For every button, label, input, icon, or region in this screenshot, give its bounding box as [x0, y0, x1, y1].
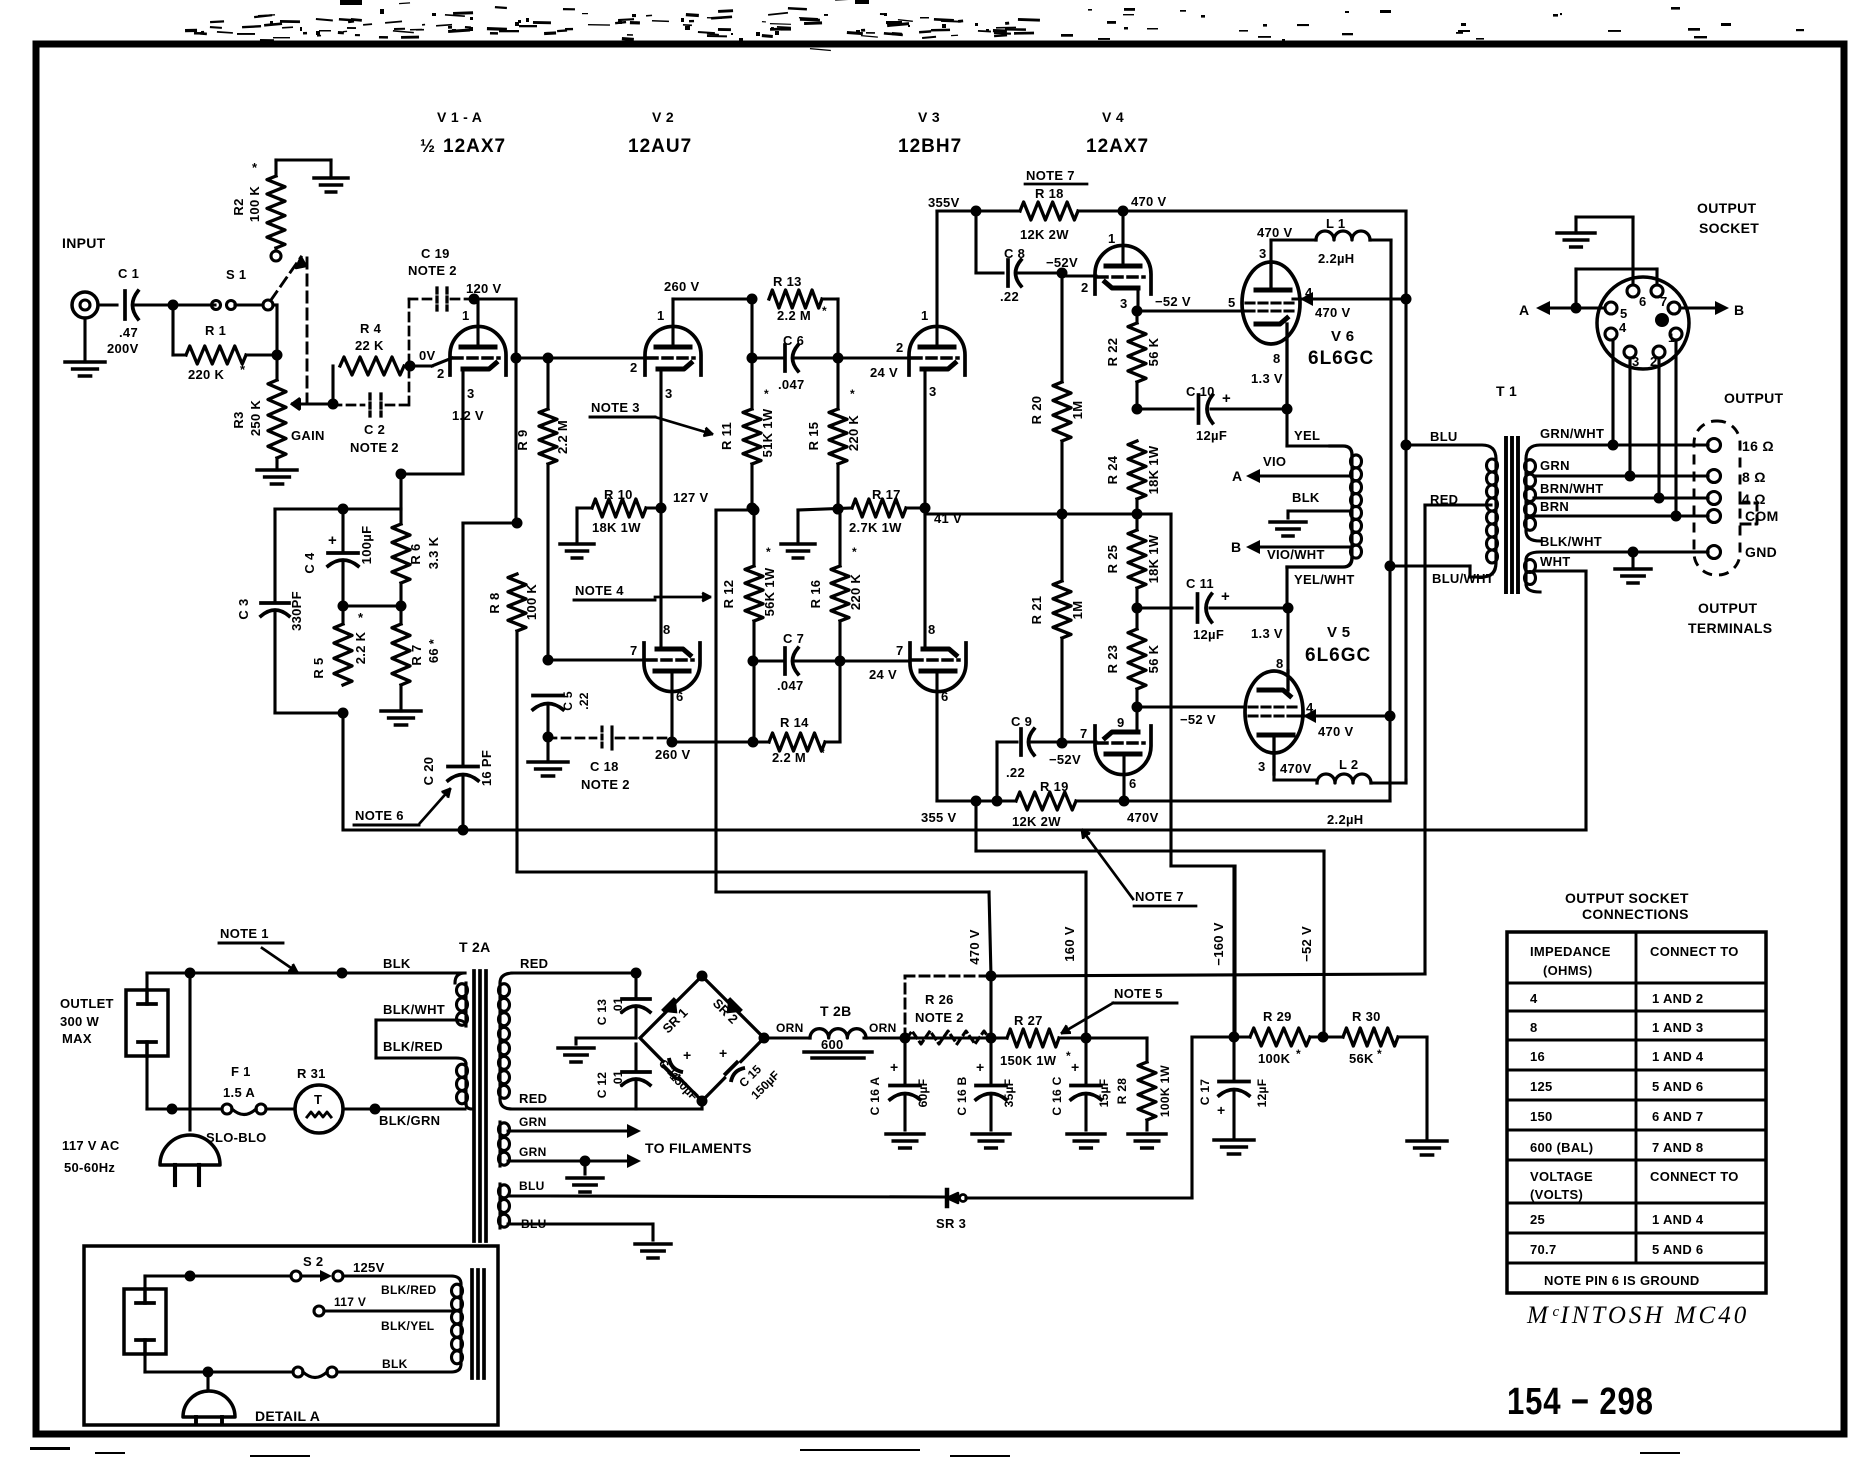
resistor R2 — [271, 251, 281, 261]
diode SR1 — [661, 997, 684, 1020]
svg-text:*: * — [764, 387, 769, 401]
rail B+ x716 — [714, 510, 717, 892]
svg-text:4: 4 — [1530, 991, 1538, 1006]
tap B VIO/WHT — [1258, 546, 1352, 549]
node C11 left — [1132, 603, 1143, 614]
resistor R19 12K 2W — [937, 799, 1016, 802]
svg-text:470 V: 470 V — [1257, 225, 1293, 240]
svg-text:R3: R3 — [231, 411, 246, 428]
svg-text:−52 V: −52 V — [1180, 712, 1216, 727]
svg-text:R 29: R 29 — [1263, 1009, 1292, 1024]
svg-text:*: * — [850, 387, 855, 401]
filament ground — [580, 1156, 591, 1167]
node C7 left — [835, 656, 846, 667]
fuse F1 — [222, 1104, 232, 1114]
ground below input jack — [83, 318, 86, 362]
V1 cathode wire — [461, 369, 464, 474]
node R5 top — [338, 601, 349, 612]
wire C6 to V3 grid — [838, 356, 908, 359]
svg-text:9: 9 — [1117, 715, 1125, 730]
svg-text:220 K: 220 K — [188, 367, 225, 382]
node BLU — [1401, 440, 1412, 451]
svg-text:R 6: R 6 — [408, 543, 423, 564]
svg-text:1: 1 — [462, 308, 470, 323]
svg-text:VIO/WHT: VIO/WHT — [1267, 547, 1325, 562]
svg-text:*: * — [358, 610, 364, 625]
node R27 right — [1081, 1033, 1092, 1044]
svg-text:1.3 V: 1.3 V — [1251, 626, 1283, 641]
svg-text:½: ½ — [420, 136, 435, 156]
node RED C13 — [631, 968, 642, 979]
tube V3 12BH7 upper half — [909, 326, 965, 375]
T2A filament winding BLU — [498, 1184, 501, 1228]
bus 470V to right — [1123, 209, 1406, 212]
terminal GND — [1708, 546, 1721, 559]
svg-text:25: 25 — [1530, 1212, 1545, 1227]
note 7 arrow lower — [1082, 830, 1133, 899]
svg-text:6 AND 7: 6 AND 7 — [1652, 1109, 1703, 1124]
svg-text:2.7K 1W: 2.7K 1W — [849, 520, 902, 535]
svg-text:BLK/RED: BLK/RED — [383, 1039, 443, 1054]
wire R31 right — [343, 1107, 465, 1110]
diode SR2 — [720, 997, 743, 1020]
svg-text:TO FILAMENTS: TO FILAMENTS — [645, 1140, 752, 1156]
svg-text:OUTLET: OUTLET — [60, 996, 114, 1011]
svg-text:*: * — [822, 304, 827, 318]
svg-text:18K 1W: 18K 1W — [1146, 445, 1161, 494]
svg-text:12K 2W: 12K 2W — [1012, 814, 1061, 829]
tube V4 lower half — [1095, 726, 1151, 775]
svg-text:C 4: C 4 — [302, 552, 317, 574]
node outlet top — [185, 968, 196, 979]
svg-text:*: * — [240, 362, 246, 377]
svg-text:600 (BAL): 600 (BAL) — [1530, 1140, 1593, 1155]
svg-text:NOTE 7: NOTE 7 — [1135, 889, 1184, 904]
svg-text:L 1: L 1 — [1326, 216, 1345, 231]
svg-text:0V: 0V — [419, 348, 436, 363]
svg-text:56K 1W: 56K 1W — [762, 567, 777, 616]
socket pin 6 — [1631, 217, 1634, 285]
wire to V2b grid — [548, 658, 645, 661]
resistor R22 56K — [1135, 311, 1138, 323]
resistor R28 100K 1W — [1086, 1036, 1147, 1039]
node R19 left — [992, 796, 1003, 807]
svg-text:NOTE 7: NOTE 7 — [1026, 168, 1075, 183]
outlet box — [126, 990, 168, 1056]
svg-text:SOCKET: SOCKET — [1699, 220, 1759, 236]
detail A winding — [451, 1276, 461, 1284]
svg-text:7: 7 — [630, 643, 638, 658]
wire 120V to R8 top — [474, 297, 516, 300]
355V drop to -bus — [974, 801, 977, 851]
wire B arrow — [1680, 307, 1718, 310]
svg-text:2.2 M: 2.2 M — [772, 750, 806, 765]
wire outlet bottom — [145, 1056, 148, 1109]
T2A filament winding GRN — [498, 1122, 501, 1166]
wire V1 plate to V2 grid direct coupling — [516, 356, 648, 359]
svg-text:+: + — [890, 1059, 898, 1075]
svg-text:1: 1 — [657, 308, 665, 323]
svg-text:R 9: R 9 — [515, 429, 530, 450]
node C12 C13 mid ground — [576, 1036, 636, 1039]
svg-text:150: 150 — [1530, 1109, 1553, 1124]
svg-text:260 V: 260 V — [655, 747, 691, 762]
svg-text:SR 3: SR 3 — [936, 1216, 966, 1231]
node 355V — [971, 206, 982, 217]
resistor R8 — [508, 574, 526, 631]
bus y872 — [517, 870, 1086, 873]
node C5 bottom — [543, 732, 554, 743]
bridge rectifier diamond — [640, 976, 764, 1101]
svg-text:C 6: C 6 — [783, 333, 804, 348]
node A line — [1571, 303, 1582, 314]
svg-text:R 16: R 16 — [808, 580, 823, 609]
svg-text:NOTE PIN 6 IS GROUND: NOTE PIN 6 IS GROUND — [1544, 1273, 1700, 1288]
svg-text:R 1: R 1 — [205, 323, 226, 338]
svg-text:GRN: GRN — [1540, 458, 1570, 473]
V1 plate wire — [476, 299, 479, 347]
svg-text:VIO: VIO — [1263, 454, 1286, 469]
cathode winding T1 feedback — [1330, 446, 1352, 455]
node 120V — [469, 294, 480, 305]
svg-text:2: 2 — [1650, 354, 1658, 369]
V2 plate wire to 260V — [671, 299, 674, 347]
tube V2 lower half — [644, 643, 700, 692]
svg-text:NOTE 2: NOTE 2 — [915, 1010, 964, 1025]
wire to V4 grid — [1062, 274, 1096, 277]
wire R17 right to 41V — [906, 506, 925, 509]
svg-text:8: 8 — [1276, 656, 1284, 671]
svg-text:1 AND 2: 1 AND 2 — [1652, 991, 1703, 1006]
resistor R21 1M — [1060, 514, 1063, 581]
svg-text:.047: .047 — [777, 678, 804, 693]
svg-text:V 4: V 4 — [1102, 109, 1124, 125]
svg-text:117 V: 117 V — [334, 1295, 366, 1309]
capacitor C16B 35uF — [989, 1038, 992, 1084]
node R11 bottom — [747, 503, 758, 514]
svg-text:C 13: C 13 — [595, 999, 609, 1026]
svg-text:1: 1 — [1668, 331, 1675, 345]
node R24 R25 junction — [1132, 509, 1143, 520]
svg-text:*: * — [1377, 1047, 1382, 1061]
svg-text:2: 2 — [630, 360, 638, 375]
svg-text:12µF: 12µF — [1196, 428, 1227, 443]
socket pin drop wires — [1611, 340, 1614, 445]
inductor L2 2.2uH — [1317, 774, 1371, 783]
node -52V V4 cathode — [1132, 306, 1143, 317]
capacitor C8 .22 — [976, 271, 1003, 274]
socket pin 3 — [1624, 346, 1636, 358]
BLU wire to SR3 — [508, 1194, 548, 1197]
svg-text:R 28: R 28 — [1115, 1078, 1129, 1105]
svg-text:YEL/WHT: YEL/WHT — [1294, 572, 1355, 587]
tap WHT to bus — [1534, 569, 1560, 572]
svg-text:1: 1 — [1108, 231, 1116, 246]
node C6 right — [833, 353, 844, 364]
ground at R2 top — [329, 160, 332, 178]
svg-text:6L6GC: 6L6GC — [1308, 348, 1374, 369]
svg-text:+: + — [328, 532, 337, 549]
svg-text:R 14: R 14 — [780, 715, 809, 730]
ground at R10 left — [577, 506, 592, 509]
svg-text:60µF: 60µF — [916, 1079, 930, 1108]
svg-text:VOLTAGE: VOLTAGE — [1530, 1169, 1593, 1184]
svg-text:470 V: 470 V — [967, 929, 982, 965]
bus 470V lower right — [1124, 799, 1390, 802]
svg-text:3: 3 — [665, 386, 673, 401]
V3 cathode run — [923, 369, 926, 649]
svg-text:+: + — [1221, 588, 1230, 605]
svg-text:100K: 100K — [1258, 1051, 1291, 1066]
svg-text:470V: 470V — [1280, 761, 1312, 776]
svg-text:.22: .22 — [1000, 289, 1019, 304]
svg-text:R 12: R 12 — [721, 580, 736, 609]
svg-text:BLK/WHT: BLK/WHT — [383, 1002, 445, 1017]
svg-text:NOTE 2: NOTE 2 — [581, 777, 630, 792]
vertical rail x1062 R20 — [1060, 273, 1063, 382]
svg-text:MᶜINTOSH MC40: MᶜINTOSH MC40 — [1526, 1302, 1749, 1329]
svg-text:−52 V: −52 V — [1155, 294, 1191, 309]
T2A primary lower — [464, 1064, 467, 1104]
svg-text:NOTE 6: NOTE 6 — [355, 808, 404, 823]
resistor R13 — [769, 290, 822, 308]
capacitor C12 .01 — [622, 1070, 650, 1074]
capacitor C2 dashed NOTE 2 — [333, 404, 364, 407]
node C20 bottom — [458, 825, 469, 836]
svg-text:15µF: 15µF — [1097, 1079, 1111, 1108]
svg-text:1M: 1M — [1070, 401, 1085, 420]
V5 plate to L2 — [1272, 774, 1275, 780]
wire RED bottom — [512, 1107, 702, 1110]
svg-text:R 15: R 15 — [806, 422, 821, 451]
svg-text:−52V: −52V — [1049, 752, 1081, 767]
svg-text:L 2: L 2 — [1339, 757, 1358, 772]
bus y851 — [976, 849, 1324, 852]
svg-text:7 AND 8: 7 AND 8 — [1652, 1140, 1703, 1155]
svg-text:(VOLTS): (VOLTS) — [1530, 1187, 1583, 1202]
svg-text:C 10: C 10 — [1186, 384, 1215, 399]
svg-text:.22: .22 — [1006, 765, 1025, 780]
svg-text:18K 1W: 18K 1W — [592, 520, 641, 535]
svg-text:.01: .01 — [611, 997, 625, 1015]
svg-text:56 K: 56 K — [1146, 337, 1161, 366]
svg-text:*: * — [820, 746, 825, 760]
wire jack to C1 — [98, 303, 117, 306]
node wiper junction — [328, 399, 339, 410]
node C6 left — [747, 353, 758, 364]
svg-text:*: * — [1296, 1047, 1301, 1061]
svg-text:IMPEDANCE: IMPEDANCE — [1530, 944, 1611, 959]
svg-text:+: + — [976, 1059, 984, 1075]
svg-text:355V: 355V — [928, 195, 960, 210]
C9 left leg — [995, 742, 998, 801]
svg-text:C 19: C 19 — [421, 246, 450, 261]
T1 secondary lower winding — [1526, 552, 1708, 560]
svg-text:R 8: R 8 — [487, 592, 502, 613]
node R27 left — [986, 1033, 997, 1044]
svg-text:C 11: C 11 — [1186, 576, 1214, 591]
detail A box — [84, 1246, 498, 1425]
svg-text:S 2: S 2 — [303, 1254, 323, 1269]
V5 screen wire — [1296, 714, 1390, 717]
svg-text:R 4: R 4 — [360, 321, 382, 336]
tube V5 6L6GC — [1245, 671, 1303, 753]
svg-text:6: 6 — [1129, 776, 1137, 791]
svg-text:C 9: C 9 — [1011, 714, 1032, 729]
svg-text:C 16 C: C 16 C — [1050, 1076, 1064, 1115]
svg-text:YEL: YEL — [1294, 428, 1320, 443]
node C8 right — [1057, 268, 1068, 279]
svg-text:BRN/WHT: BRN/WHT — [1540, 481, 1603, 496]
capacitor C15 150uF — [720, 1057, 745, 1082]
svg-text:V 5: V 5 — [1327, 624, 1350, 641]
tap BRN COM — [1534, 514, 1708, 517]
svg-text:470V: 470V — [1127, 810, 1159, 825]
rail 470V x991 — [989, 976, 992, 1038]
svg-text:C 7: C 7 — [783, 631, 804, 646]
capacitor C16A 60uF — [903, 1038, 906, 1084]
svg-text:C 16 B: C 16 B — [955, 1076, 969, 1115]
svg-text:260 V: 260 V — [664, 279, 700, 294]
svg-text:470 V: 470 V — [1131, 194, 1167, 209]
svg-text:C 17: C 17 — [1198, 1079, 1212, 1106]
V2b plate wire — [670, 671, 673, 742]
wire cathode rail y509 — [275, 507, 401, 510]
capacitor C18 dashed NOTE 2 — [548, 737, 596, 740]
node BLK/GRN — [370, 1104, 381, 1115]
svg-text:RED: RED — [1430, 492, 1458, 507]
capacitor C13 .01 — [634, 973, 637, 997]
svg-text:127 V: 127 V — [673, 490, 709, 505]
svg-text:CONNECT TO: CONNECT TO — [1650, 1169, 1739, 1184]
svg-text:C 16 A: C 16 A — [868, 1077, 882, 1116]
bus y831 — [345, 828, 1586, 831]
capacitor C9 .22 — [1032, 740, 1096, 743]
socket pin 7 — [1651, 285, 1663, 297]
svg-text:BLU: BLU — [519, 1179, 545, 1193]
node detail A — [185, 1271, 196, 1282]
svg-text:+: + — [719, 1045, 727, 1061]
svg-text:2: 2 — [1081, 280, 1089, 295]
socket ground top — [1574, 217, 1577, 233]
svg-text:R 19: R 19 — [1040, 779, 1069, 794]
node C17 R29 — [1229, 1032, 1240, 1043]
wire V4 cathode to V6 grid — [1137, 309, 1244, 312]
socket pin 9 filled — [1655, 313, 1669, 327]
svg-text:CONNECTIONS: CONNECTIONS — [1582, 906, 1689, 922]
svg-text:BLK/GRN: BLK/GRN — [379, 1113, 440, 1128]
svg-text:R 25: R 25 — [1105, 545, 1120, 574]
plug P1 — [188, 973, 191, 1130]
svg-text:BRN: BRN — [1540, 499, 1569, 514]
dashed vertical C2 to C19 — [408, 299, 411, 405]
tube V4 12AX7 upper half — [1095, 245, 1151, 294]
svg-text:R 17: R 17 — [872, 487, 901, 502]
node R4 right — [405, 361, 416, 372]
tube V2 12AU7 upper half — [645, 326, 701, 375]
ground on BLK/WHT — [1628, 547, 1639, 558]
tap BLK/RED — [376, 1058, 466, 1064]
svg-text:GND: GND — [1745, 544, 1777, 560]
SR3 wire up to -160V rail — [1190, 1037, 1193, 1198]
resistor R18 12K 2W — [1020, 202, 1078, 220]
svg-text:.047: .047 — [778, 377, 805, 392]
svg-text:C 3: C 3 — [236, 598, 251, 619]
svg-text:RED: RED — [520, 956, 548, 971]
svg-text:3: 3 — [1632, 354, 1640, 369]
svg-text:F 1: F 1 — [231, 1064, 251, 1079]
svg-text:3: 3 — [467, 386, 475, 401]
svg-text:8: 8 — [663, 622, 671, 637]
svg-text:22 K: 22 K — [355, 338, 384, 353]
svg-text:BLK/WHT: BLK/WHT — [1540, 534, 1602, 549]
svg-text:2.2µH: 2.2µH — [1318, 251, 1354, 266]
tap 117V — [314, 1306, 324, 1316]
detail A plug — [206, 1372, 209, 1389]
resistor R17 2.7K 1W — [852, 499, 906, 517]
wire C7 to V3b grid — [840, 659, 908, 662]
V3b plate wire down — [935, 671, 938, 801]
svg-text:+: + — [1071, 1059, 1079, 1075]
svg-text:3.3 K: 3.3 K — [426, 536, 441, 569]
V4 cathode wire — [1136, 288, 1139, 311]
svg-text:R 20: R 20 — [1029, 396, 1044, 425]
svg-text:100 K: 100 K — [524, 584, 539, 621]
svg-text:+: + — [683, 1047, 691, 1063]
wire bridge to T2B — [764, 1036, 810, 1039]
svg-text:6: 6 — [941, 689, 949, 704]
svg-text:.01: .01 — [611, 1070, 625, 1088]
capacitor C5 .22 — [533, 694, 563, 698]
resistor R6 — [392, 524, 410, 583]
svg-text:160 V: 160 V — [1062, 926, 1077, 962]
tube V3 lower half — [910, 643, 966, 692]
svg-text:.47: .47 — [119, 325, 138, 340]
tap GRN 8ohm — [1534, 474, 1708, 477]
svg-text:56 K: 56 K — [1146, 644, 1161, 673]
node 260V lower — [667, 737, 678, 748]
svg-text:5 AND 6: 5 AND 6 — [1652, 1079, 1703, 1094]
svg-text:66 *: 66 * — [426, 638, 441, 663]
svg-text:3: 3 — [1120, 296, 1128, 311]
svg-text:DETAIL A: DETAIL A — [255, 1408, 320, 1424]
V5 cathode wire up — [1286, 608, 1289, 671]
resistor R20 1M — [1053, 382, 1071, 441]
T1 secondary upper winding — [1526, 445, 1708, 459]
resistor R16 220K — [831, 566, 849, 621]
svg-text:6: 6 — [676, 689, 684, 704]
bus y975 to RED — [991, 974, 1425, 976]
svg-text:2: 2 — [437, 366, 445, 381]
node V5 grid junction — [1132, 702, 1143, 713]
svg-text:3: 3 — [1258, 759, 1266, 774]
socket pin 8 — [1668, 302, 1680, 314]
resistor R5 — [341, 606, 344, 624]
svg-text:220 K: 220 K — [846, 415, 861, 452]
node R21 bottom C9 — [1057, 738, 1068, 749]
ground below C5 — [546, 737, 549, 762]
svg-text:GAIN: GAIN — [291, 428, 325, 443]
capacitor C19 dashed NOTE 2 — [409, 298, 432, 301]
svg-text:T: T — [314, 1092, 322, 1107]
R30 right ground — [1398, 1035, 1427, 1038]
node C11 right — [1283, 603, 1294, 614]
svg-text:*: * — [252, 160, 258, 175]
capacitor C20 16PF — [448, 765, 478, 769]
switch arm dashed to R2 — [271, 257, 301, 300]
vertical 260V rail — [750, 299, 753, 358]
wire RED top — [512, 971, 636, 974]
